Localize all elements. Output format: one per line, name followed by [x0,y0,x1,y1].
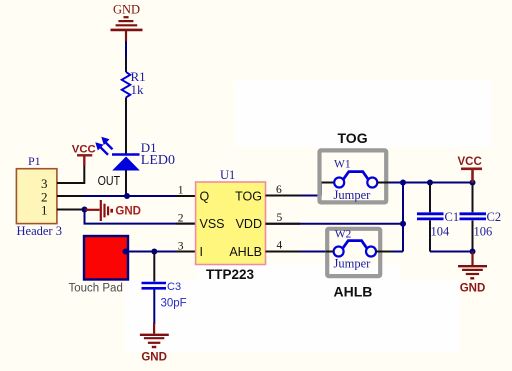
node GND junction [470,249,476,255]
capacitor C1 [429,183,431,213]
svg-text:30pF: 30pF [161,298,187,310]
svg-text:3: 3 [178,240,184,252]
svg-text:Header 3: Header 3 [17,224,62,238]
svg-text:C1: C1 [445,210,460,224]
wire OUT net (P1 pin2 to U1 Q) [57,195,196,197]
svg-text:W1: W1 [334,159,351,171]
wire pad to U1 I [128,251,196,253]
svg-text:Q: Q [200,189,210,203]
IC U1 TTP223 [196,182,266,265]
power VCC (right) [461,169,482,183]
LED D1 [95,137,140,171]
svg-text:Jumper: Jumper [334,257,372,271]
wire P1 pin1 to U1 VSS [85,210,196,224]
wire W1 to VCC rail [390,182,473,184]
node VDD junction [400,221,406,227]
connector P1 [16,169,57,224]
wire vertical TOG-VDD-W2 [402,183,404,252]
jumper W2 [327,229,380,276]
wire LED to OUT node [125,171,127,197]
node C3 junction [151,249,157,255]
node TOG/VDD junction [400,180,406,186]
svg-text:C3: C3 [167,281,181,293]
svg-text:I: I [200,245,203,259]
svg-text:1: 1 [178,184,184,196]
svg-text:OUT: OUT [98,173,121,188]
wire U1 TOG to W1 [266,195,321,197]
wire GND to R1 [125,41,127,57]
svg-text:TTP223: TTP223 [206,267,255,282]
wire U1 AHLB to W2 [266,251,334,253]
svg-text:GND: GND [113,2,140,16]
power ground GND (bottom right) [458,252,487,279]
svg-text:AHLB: AHLB [334,284,373,300]
wire C1 bottom to GND [430,251,473,253]
svg-text:W2: W2 [335,228,352,240]
wire C3 branch [153,252,155,282]
svg-text:VCC: VCC [72,143,96,155]
svg-text:GND: GND [141,351,167,363]
svg-text:TOG: TOG [338,130,368,146]
svg-text:6: 6 [276,184,282,196]
svg-text:1k: 1k [131,82,145,97]
jumper W1 [320,150,387,202]
svg-text:Jumper: Jumper [334,188,372,202]
svg-text:106: 106 [474,224,493,238]
power ground GND (bottom center) [140,323,169,347]
svg-text:C2: C2 [487,210,502,224]
wire C3 to GND [153,290,155,325]
power ground GND (near P1, sideways) [85,200,112,221]
power ground GND (top) [111,17,143,41]
node C1 top junction [427,180,433,186]
svg-text:VCC: VCC [458,156,482,168]
wire W2 to vertical [392,251,403,253]
svg-text:4: 4 [277,240,283,252]
svg-text:P1: P1 [28,154,41,168]
svg-text:1: 1 [41,203,48,218]
wire R1 to LED [125,98,127,155]
svg-text:5: 5 [277,212,283,224]
svg-text:VDD: VDD [236,217,262,231]
wire P1 pin1 [57,209,85,211]
svg-text:2: 2 [178,213,184,225]
svg-text:LED0: LED0 [141,153,175,168]
touch pad [84,236,128,280]
svg-text:TOG: TOG [235,189,262,203]
wire U1 VDD to vertical [266,223,404,225]
svg-text:104: 104 [431,224,451,238]
svg-text:AHLB: AHLB [229,245,262,259]
svg-text:VSS: VSS [200,217,225,231]
node P1 pin1 junction [82,207,88,213]
svg-text:U1: U1 [220,168,235,182]
node VCC junction [470,180,476,186]
capacitor C2 [472,183,474,213]
node OUT junction [124,193,130,199]
capacitor C3 [142,283,167,288]
svg-text:GND: GND [460,282,486,294]
resistor R1 [122,72,130,98]
wire P1 pin3 to VCC [57,166,84,183]
node pad junction [123,249,129,255]
svg-text:Touch Pad: Touch Pad [69,283,123,295]
svg-text:GND: GND [115,205,141,217]
power VCC (left) [77,155,92,166]
